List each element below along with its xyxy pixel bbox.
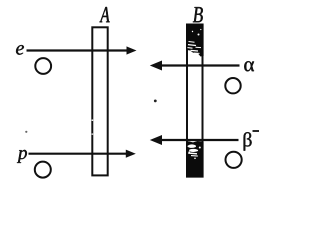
circle under beta [226,152,242,168]
label A (plate A) [100,7,110,22]
label beta minus [244,131,259,151]
alpha arrow (wire) [150,61,240,71]
label e (electron) [16,45,24,55]
beta arrow (wire) [150,135,239,145]
electron arrow (wire) [27,46,137,54]
proton arrow (wire) [29,150,136,158]
plate B top black segment [186,24,204,57]
label B (plate B) [193,7,203,22]
speck near beta arrow tip [154,100,157,103]
plate B bottom black segment [186,141,204,178]
label alpha [244,61,254,71]
circle under alpha [225,78,240,93]
label p (proton) [17,150,27,163]
scan nicks on plate A left wall [92,120,94,121]
circle under p [35,162,51,178]
plate A (white bar) [92,27,107,175]
speck near p arrow [25,131,27,133]
circle under e [35,58,51,74]
plate B outline [187,25,203,177]
